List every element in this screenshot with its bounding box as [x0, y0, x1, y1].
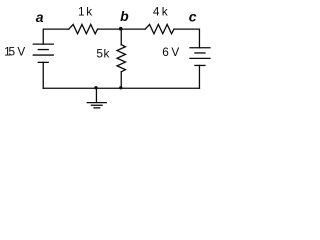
- wire top-left: node a corner to 1k: [43, 29, 69, 44]
- svg-text:4: 4: [153, 5, 160, 19]
- label 5 k: [96, 47, 109, 61]
- junction dot 5k to bottom rail: [119, 86, 122, 89]
- resistor R 1k zigzag: [69, 24, 98, 33]
- svg-text:V: V: [171, 45, 179, 59]
- label 15 V: [4, 45, 25, 59]
- battery V1 15V plates: [33, 44, 53, 62]
- wire node b top segment: [98, 28, 146, 30]
- svg-text:1: 1: [78, 5, 85, 19]
- resistor R 4k zigzag: [145, 24, 174, 33]
- wire left bottom: battery to bottom rail: [42, 62, 44, 88]
- svg-text:V: V: [17, 45, 25, 59]
- wire 5k bottom lead to bottom rail: [120, 72, 122, 89]
- svg-text:k: k: [162, 5, 168, 19]
- label 6 V: [162, 45, 179, 59]
- ground symbol: [87, 88, 106, 108]
- svg-text:5: 5: [9, 45, 16, 59]
- junction dot node b: [119, 27, 123, 31]
- svg-text:6: 6: [162, 45, 169, 59]
- wire bottom rail: [43, 87, 199, 89]
- svg-text:k: k: [86, 5, 92, 19]
- junction dot ground: [94, 86, 97, 89]
- svg-text:5: 5: [96, 47, 103, 61]
- svg-text:a: a: [36, 9, 44, 25]
- label 4 k: [153, 5, 168, 19]
- svg-text:k: k: [104, 47, 110, 61]
- svg-text:b: b: [120, 8, 129, 24]
- battery V2 6V plates: [190, 48, 210, 66]
- label 1 k: [78, 5, 92, 19]
- wire top-right: 4k to node c corner: [174, 29, 200, 48]
- resistor R 5k zigzag vertical: [117, 45, 125, 72]
- svg-text:c: c: [189, 9, 197, 25]
- wire right bottom: battery to bottom rail: [198, 65, 200, 88]
- wire 5k top lead from node b: [120, 29, 122, 45]
